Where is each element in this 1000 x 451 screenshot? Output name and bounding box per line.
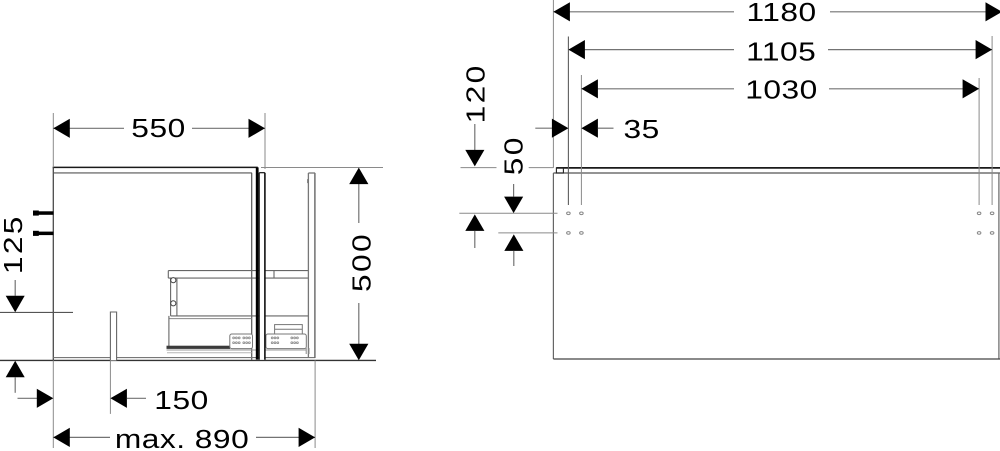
arrow left 1180 <box>553 2 570 21</box>
dimension 1180 <box>553 0 1000 168</box>
arrow up 500 <box>349 168 368 185</box>
leader 35 <box>598 127 614 129</box>
arrow right-pointing 150 <box>37 389 54 408</box>
arrow left max890 <box>53 428 70 447</box>
svg-text:120: 120 <box>462 63 491 123</box>
arrow up 125 <box>6 361 25 377</box>
dimension 150 <box>18 360 209 448</box>
upper tail 50 <box>513 184 515 197</box>
drawer rail joint <box>273 271 275 279</box>
dim tail upper 125 <box>14 280 16 296</box>
arrow right 1180 (clipped at edge) <box>986 2 1000 21</box>
dimension 120 <box>461 63 554 248</box>
drawer front box <box>259 173 265 360</box>
arrow left 1030 <box>581 79 598 98</box>
wall bolt 1 <box>33 211 53 216</box>
dimension 50 <box>459 135 557 266</box>
extension line left (550) <box>52 113 54 167</box>
bracket screw 2 <box>171 301 176 306</box>
dimension 500 <box>261 168 383 361</box>
drawer rail top <box>168 270 308 272</box>
slide lower line <box>167 349 307 351</box>
mounting holes left <box>567 212 584 234</box>
extension line right (550) <box>264 113 266 169</box>
dim line 550 <box>53 127 124 129</box>
extension left (1105) <box>567 37 569 206</box>
arrow right-pointing 35 <box>552 119 569 138</box>
arrow down 500 <box>349 344 368 361</box>
extension right (max890) <box>314 360 316 448</box>
upper tail 120 <box>474 124 476 150</box>
cabinet right edge <box>998 173 1000 359</box>
svg-text:1180: 1180 <box>747 0 817 27</box>
svg-text:50: 50 <box>500 135 529 175</box>
arrow left-pointing 150 <box>110 389 127 408</box>
svg-text:max. 890: max. 890 <box>115 426 249 451</box>
dimension 35 <box>535 115 659 144</box>
dim line 1105 <box>568 49 734 51</box>
dimension 550 <box>53 113 265 169</box>
dimension 125 <box>0 214 73 393</box>
drawer mid line short <box>169 318 252 320</box>
left tail 150 <box>18 397 38 399</box>
bracket screw 1 <box>171 278 176 283</box>
top plate left notch <box>556 168 563 173</box>
left tail 35 <box>535 127 552 129</box>
svg-text:1105: 1105 <box>746 38 816 67</box>
top plate lower line <box>553 172 1000 174</box>
drawer rail bottom <box>168 277 308 279</box>
tick line 125 <box>0 311 73 313</box>
dimension 1105 <box>568 36 992 205</box>
svg-text:150: 150 <box>154 387 208 416</box>
drawer rail left cap <box>167 271 169 279</box>
siphon reference bar (150) <box>110 312 116 360</box>
carcass left edge <box>52 167 54 360</box>
arrow left 550 <box>53 119 70 138</box>
slide block 1 <box>230 334 253 349</box>
cabinet bottom line <box>553 358 1000 360</box>
drawer bracket verticals <box>170 278 172 316</box>
lower tail 120 <box>474 231 476 248</box>
cabinet left edge <box>552 173 554 359</box>
extension right (150) <box>109 360 111 414</box>
arrow down 120 <box>465 150 484 167</box>
arrow right max890 <box>299 428 316 447</box>
tick line top (120) <box>461 167 497 169</box>
dimension 1030 <box>581 75 979 205</box>
carcass top inner line <box>53 172 252 174</box>
arrow right 1105 <box>976 40 993 59</box>
lower tail 50 <box>513 251 515 266</box>
extension right (1105) <box>991 36 993 205</box>
extension right (1030) <box>978 78 980 205</box>
arrow down 50 <box>504 197 523 214</box>
mounting holes right <box>977 212 994 234</box>
extension left (1030) <box>580 75 582 205</box>
svg-text:500: 500 <box>348 232 377 292</box>
top plate upper line <box>556 167 1000 169</box>
extension left (150) <box>52 360 54 448</box>
svg-text:35: 35 <box>623 115 659 144</box>
dim line 500 <box>358 169 360 224</box>
extension left (1180) <box>552 0 554 168</box>
leader 150 <box>127 397 146 399</box>
dimension max. 890 <box>53 360 315 451</box>
dim line max890 <box>53 436 110 438</box>
open door panel (tall rect) <box>308 173 315 358</box>
svg-text:550: 550 <box>131 115 185 144</box>
door panel notch <box>307 179 309 183</box>
slide lower line 2 <box>167 352 252 354</box>
front panel thick line <box>256 167 259 359</box>
drawer mid line long <box>171 315 309 317</box>
dim tail lower 125 <box>14 377 16 393</box>
arrow left 1105 <box>568 40 585 59</box>
arrow right 550 <box>249 119 266 138</box>
tick line row1 (50) <box>459 212 557 214</box>
extension top (500) <box>261 167 383 169</box>
arrow up 120 <box>465 214 484 231</box>
arrow right 1030 <box>963 79 980 98</box>
carcass top outer line <box>53 166 258 168</box>
slide block 2 <box>266 334 306 349</box>
floor line <box>0 359 376 361</box>
tick line row2 (50) <box>498 232 557 234</box>
carcass bottom inner line <box>53 357 315 359</box>
arrow up 50 <box>504 234 523 251</box>
door panel foot <box>306 348 309 354</box>
arrow left-pointing 35 <box>581 119 598 138</box>
slide dark bar <box>167 346 231 349</box>
carcass front inner vertical <box>251 173 253 360</box>
dim line 1030 <box>581 88 734 90</box>
arrow down 125 <box>6 296 25 312</box>
svg-text:1030: 1030 <box>745 76 818 105</box>
dim line 1180 <box>553 11 734 13</box>
handle bracket above block 2 <box>275 325 303 334</box>
svg-text:125: 125 <box>0 214 28 274</box>
drawer lower left edge <box>168 316 170 347</box>
wall bolt 2 <box>33 231 53 236</box>
